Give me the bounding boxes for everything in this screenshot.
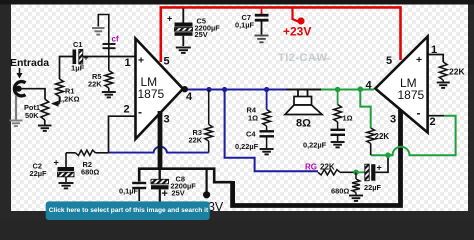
svg-text:0,22µF: 0,22µF: [235, 142, 259, 151]
ground R5: [102, 88, 116, 97]
svg-text:+: +: [138, 55, 144, 67]
node +23V terminal: [283, 7, 311, 38]
speaker 8 ohm: [285, 90, 322, 130]
svg-text:5: 5: [164, 56, 170, 68]
wire jack to pot: [19, 89, 45, 99]
ground cf: [92, 27, 105, 29]
svg-text:25V: 25V: [195, 30, 208, 39]
input jack J1: [14, 82, 25, 96]
ground R680 right: [349, 195, 363, 197]
wire R1 to C1 input line: [60, 57, 73, 80]
resistor 22K U2 pin1: [439, 62, 465, 80]
svg-text:+: +: [84, 53, 89, 63]
capacitor C2 22uF: [30, 153, 75, 182]
wire U2 feedback tap green: [360, 89, 370, 128]
resistor R2 680: [66, 150, 109, 176]
svg-text:22K: 22K: [88, 80, 102, 89]
wire bottom rail thick: [233, 107, 401, 206]
wire U1 pin2: [109, 116, 136, 152]
capacitor C5 2200uF: [167, 9, 220, 47]
node junction feedback tap: [358, 86, 364, 92]
svg-text:22K: 22K: [375, 132, 390, 141]
capacitor 0,1uF bypass: [119, 183, 146, 201]
resistor R3 22K: [189, 90, 213, 153]
svg-text:RG: RG: [305, 163, 317, 172]
svg-text:5: 5: [386, 55, 392, 67]
button search overlay: [46, 201, 210, 220]
svg-text:-: -: [417, 106, 421, 120]
op-amp U2 LM1875 right: [375, 37, 427, 133]
node -23V terminal: [201, 169, 224, 215]
resistor 22K U2 feedback: [367, 128, 390, 155]
node junction RG/680: [353, 170, 359, 176]
resistor R5 22K: [88, 57, 113, 89]
ground 0,22uF right: [331, 141, 345, 143]
svg-text:1µF: 1µF: [71, 64, 85, 73]
svg-text:4: 4: [186, 91, 193, 103]
wire C8 row horizontal: [139, 169, 232, 183]
svg-text:TI2-CA̶W̶: TI2-CA̶W̶: [278, 52, 331, 64]
capacitor C1 1uF: [71, 40, 89, 73]
svg-text:0,1µF: 0,1µF: [119, 187, 139, 196]
wire U2 pin2 black stub: [428, 115, 444, 117]
op-amp U1 LM1875 left: [136, 39, 184, 140]
svg-text:+: +: [162, 188, 168, 200]
svg-text:Click here to select part of t: Click here to select part of this image …: [49, 207, 209, 214]
ground C5: [176, 47, 191, 49]
svg-text:+: +: [416, 54, 422, 66]
ground C2: [59, 182, 74, 184]
ground C7: [255, 35, 269, 37]
node Entrada label: [10, 57, 49, 79]
svg-text:2: 2: [430, 116, 436, 128]
wiper arrow Pot1: [51, 101, 60, 107]
wire pin2 to R3 with hop: [109, 147, 209, 153]
svg-text:0,1µF: 0,1µF: [235, 20, 255, 29]
node junction R3 tap: [206, 87, 211, 92]
capacitor cf: [98, 15, 119, 57]
wire U2 pin2 loop green: [371, 116, 456, 156]
svg-text:50K: 50K: [25, 111, 39, 120]
svg-text:+23V: +23V: [283, 25, 311, 39]
svg-text:C1: C1: [73, 40, 82, 49]
svg-text:+: +: [377, 163, 382, 173]
node junction 22uF/green row: [385, 152, 391, 158]
svg-text:1Ω: 1Ω: [248, 114, 258, 123]
resistor R1 1,2K: [56, 79, 80, 104]
ground 22K U2: [437, 80, 450, 88]
node U1 output junction: [182, 86, 188, 92]
capacitor C8 2200uF: [151, 169, 196, 202]
svg-text:Entrada: Entrada: [10, 57, 49, 69]
svg-text:1,2KΩ: 1,2KΩ: [58, 94, 80, 103]
svg-text:+: +: [167, 14, 172, 24]
svg-text:1875: 1875: [138, 87, 165, 101]
svg-text:-: -: [138, 105, 142, 119]
svg-text:22µF: 22µF: [30, 169, 47, 178]
wire U1 output navy: [184, 89, 286, 91]
potentiometer Pot1 50K: [24, 99, 49, 120]
svg-text:22µF: 22µF: [364, 183, 381, 192]
ground jack shield: [10, 96, 23, 127]
svg-text:0,22µF: 0,22µF: [303, 141, 327, 150]
resistor 1 ohm right: [334, 90, 353, 123]
svg-text:680Ω: 680Ω: [81, 167, 99, 176]
capacitor C4 0,22uF: [235, 126, 274, 151]
svg-text:8Ω: 8Ω: [296, 118, 311, 130]
node junction RG tap: [222, 87, 227, 92]
capacitor 0,22uF right: [303, 122, 345, 150]
node junction R4 tap: [264, 87, 269, 92]
capacitor C 22uF right: [356, 156, 388, 192]
svg-text:680Ω: 680Ω: [331, 187, 349, 196]
capacitor C7 0,1uF: [235, 9, 269, 35]
wire U1 pin3 thick: [158, 111, 163, 169]
resistor RG 22K: [305, 163, 356, 176]
svg-text:C4: C4: [246, 130, 256, 139]
node junction 1ohm tap green: [335, 87, 341, 93]
wire U2 pin1: [428, 55, 444, 63]
wire output to RG navy: [225, 90, 318, 172]
svg-text:3: 3: [164, 114, 170, 126]
svg-text:cf: cf: [112, 35, 119, 44]
wire +V rail red: [161, 7, 401, 62]
wire speaker black segment: [286, 89, 321, 91]
resistor R 680 right: [331, 172, 360, 195]
ground Pot1: [38, 120, 52, 131]
wire C1 to pin1: [83, 56, 136, 58]
svg-text:22K: 22K: [449, 67, 465, 77]
svg-text:22K: 22K: [189, 135, 203, 144]
svg-text:1Ω: 1Ω: [343, 114, 353, 123]
wire speaker green segment: [321, 89, 374, 91]
svg-text:1: 1: [125, 57, 131, 69]
svg-text:2: 2: [124, 104, 130, 116]
svg-text:22K: 22K: [320, 163, 335, 172]
svg-text:4: 4: [366, 80, 373, 92]
svg-text:25V: 25V: [172, 189, 185, 198]
ground C4: [260, 148, 274, 150]
resistor R4 1 ohm: [247, 90, 271, 127]
svg-text:3: 3: [390, 114, 396, 126]
svg-text:+: +: [54, 158, 59, 168]
svg-text:1875: 1875: [398, 88, 425, 102]
